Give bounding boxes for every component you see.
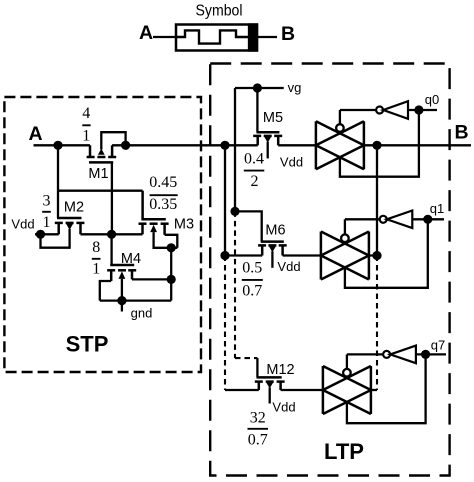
wire A node down <box>57 145 59 190</box>
wire M12 bulk stub <box>269 388 271 404</box>
transistor M5 <box>253 132 282 145</box>
svg-text:A: A <box>139 22 153 44</box>
svg-text:Vdd: Vdd <box>272 400 295 415</box>
svg-text:0.4: 0.4 <box>244 150 264 167</box>
svg-text:M1: M1 <box>88 166 108 182</box>
junction q1 <box>423 215 432 224</box>
wire vg bus to M12 gate (dashed) <box>235 357 257 359</box>
value 0.4/2 (M5 W/L) <box>244 150 264 190</box>
wire TG2 bottom control loop to q1 <box>345 219 428 287</box>
value 3/1 (M2 W/L) <box>43 192 51 231</box>
value 0.45/0.35 (M3 W/L) <box>149 174 177 213</box>
wire M6 bulk stub <box>271 251 273 267</box>
wire TG1 control to inverter U1 <box>340 109 376 111</box>
junction q7 <box>421 350 430 359</box>
transmission gate TG1 <box>316 121 364 169</box>
transistor M12 <box>255 377 285 390</box>
wire U1 input to q0 <box>408 109 437 111</box>
wire TG3 top control stub <box>346 354 348 373</box>
wire TG3 control to inverter U3 <box>347 353 383 355</box>
wire A node to M3 gate <box>58 190 143 192</box>
memristor symbol body <box>176 25 257 51</box>
wire M4 source loop to gnd rail <box>100 281 111 301</box>
wire M2 gate lead <box>57 191 59 218</box>
inverter U3 <box>383 351 390 358</box>
junction gnd <box>117 296 126 305</box>
wire M6 drain to TG2 <box>283 254 321 256</box>
wire B bus (dashed continuation) <box>224 256 226 391</box>
wire M5 drain to TG1 <box>278 144 316 146</box>
wire M1 drain to M5 source <box>112 144 258 146</box>
wire M5 gate lead <box>256 88 258 132</box>
svg-text:M2: M2 <box>64 200 84 216</box>
junction B bus top <box>372 141 381 150</box>
wire M4 bulk lead <box>121 279 123 301</box>
svg-text:2: 2 <box>251 173 259 190</box>
wire node A row <box>34 144 91 146</box>
wire memristor to B <box>257 36 277 38</box>
wire TG1 out to B <box>364 144 471 146</box>
wire M1 bulk to drain loop <box>101 132 125 149</box>
wire TG2 control to inverter U2 <box>345 218 380 220</box>
svg-text:M12: M12 <box>266 362 294 378</box>
bubble TG1 <box>336 124 344 132</box>
transistor M3 <box>139 191 169 235</box>
wire M3 bulk lead <box>154 232 178 248</box>
svg-text:LTP: LTP <box>324 439 364 464</box>
svg-text:gnd: gnd <box>131 306 153 321</box>
wire M4 gate lead <box>110 234 112 265</box>
wire output bus (solid) <box>376 145 378 255</box>
wire vg bus (dashed continuation) <box>234 211 236 358</box>
svg-text:Vdd: Vdd <box>277 259 300 274</box>
svg-text:32: 32 <box>250 409 266 426</box>
svg-text:vg: vg <box>288 80 302 95</box>
wire gnd stub <box>121 301 123 312</box>
junction M4 drain <box>167 275 176 284</box>
wire TG3 out to bus <box>371 389 377 391</box>
svg-text:Symbol: Symbol <box>196 3 243 20</box>
svg-text:q1: q1 <box>430 201 444 216</box>
svg-text:M5: M5 <box>263 110 283 126</box>
svg-text:STP: STP <box>66 332 109 357</box>
wire TG2 out to bus <box>369 254 377 256</box>
junction M1 bulk-drain <box>121 141 130 150</box>
transmission gate TG3 <box>323 366 371 414</box>
wire TG1 top control stub <box>339 110 341 129</box>
svg-text:Vdd: Vdd <box>280 155 303 170</box>
svg-text:8: 8 <box>92 239 100 256</box>
transistor M4 <box>107 265 136 281</box>
junction M1/M4 gate node <box>107 230 116 239</box>
svg-text:0.7: 0.7 <box>248 432 268 449</box>
wire M5 bulk stub <box>267 142 269 159</box>
wire TG3 bottom control loop to q7 <box>347 354 426 423</box>
wire M12 source row <box>225 389 259 391</box>
junction q0 <box>414 105 423 114</box>
wire vg rail <box>235 87 284 89</box>
wire TG2 top control stub <box>344 219 346 239</box>
wire M12 drain to TG3 <box>281 389 323 391</box>
svg-text:A: A <box>28 123 42 145</box>
svg-text:0.7: 0.7 <box>242 282 262 299</box>
svg-text:M3: M3 <box>174 217 194 233</box>
svg-text:1: 1 <box>43 214 51 231</box>
inverter U1 <box>376 107 383 114</box>
memristor zigzag <box>176 30 250 43</box>
svg-text:q7: q7 <box>431 338 445 353</box>
wire U2 input to q1 <box>412 218 444 220</box>
svg-text:M6: M6 <box>265 223 285 239</box>
value 8/1 (M4 W/L) <box>92 239 100 277</box>
junction output bus row2 <box>372 251 381 260</box>
svg-text:0.35: 0.35 <box>149 196 177 213</box>
svg-text:B: B <box>454 122 468 144</box>
value 4/1 (M1 W/L) <box>82 105 90 144</box>
wire M6 gate jog <box>235 211 262 241</box>
STP dashed box <box>4 97 201 372</box>
wire M2 drain to M3 source <box>81 233 143 235</box>
bubble TG3 <box>343 369 351 377</box>
junction vg to M5 gate <box>253 83 262 92</box>
svg-text:3: 3 <box>43 192 51 209</box>
wire M1 gate lead <box>111 162 113 234</box>
wire M6 source row <box>225 254 262 256</box>
svg-text:q0: q0 <box>425 92 439 107</box>
wire Vdd rail <box>35 233 59 235</box>
svg-text:1: 1 <box>82 127 90 144</box>
wire M3 drain <box>165 235 178 248</box>
wire vg bus (solid) <box>234 88 236 211</box>
wire B bus (solid) <box>224 145 226 255</box>
svg-text:B: B <box>281 23 295 45</box>
transmission gate TG2 <box>321 232 369 280</box>
svg-text:0.5: 0.5 <box>242 260 262 277</box>
bubble TG2 <box>341 234 349 242</box>
junction M6 source tap <box>220 251 229 260</box>
junction Vdd <box>36 230 45 239</box>
svg-text:M4: M4 <box>121 251 141 267</box>
LTP dashed box <box>210 64 449 476</box>
transistor M1 <box>87 145 117 162</box>
wire M4 drain to M3 node <box>132 278 171 280</box>
transistor M2 <box>55 218 85 234</box>
wire M12 gate lead <box>256 358 258 377</box>
wire M2 bulk to Vdd loop <box>41 229 70 248</box>
value 32/0.7 (M12 W/L) <box>248 409 268 448</box>
svg-text:0.45: 0.45 <box>149 174 177 191</box>
wire gnd rail <box>100 299 171 301</box>
wire M3 drain down <box>170 248 172 301</box>
memristor polarity bar <box>249 25 257 51</box>
wire A to memristor symbol <box>153 36 176 38</box>
junction M6 gate tap <box>230 207 239 216</box>
value 0.5/0.7 (M6 W/L) <box>242 260 262 300</box>
wire TG1 bottom control loop to q0 <box>340 110 419 177</box>
wire U3 input to q7 <box>416 353 446 355</box>
node A junction <box>53 141 62 150</box>
junction M3 drain node <box>167 243 176 252</box>
svg-text:4: 4 <box>82 105 90 122</box>
inverter U2 <box>380 216 387 223</box>
transistor M6 <box>258 242 287 256</box>
junction B bus tap <box>220 141 229 150</box>
wire output bus (dashed continuation) <box>376 256 378 391</box>
svg-text:Vdd: Vdd <box>11 217 34 232</box>
svg-text:1: 1 <box>92 260 100 277</box>
